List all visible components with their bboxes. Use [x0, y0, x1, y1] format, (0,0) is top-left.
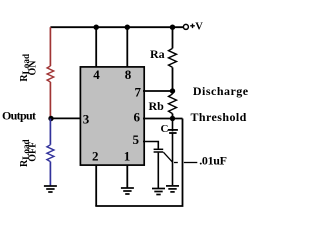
svg-text:.01uF: .01uF [199, 154, 227, 168]
svg-text:OFF: OFF [28, 142, 39, 162]
svg-text:1: 1 [124, 148, 131, 163]
svg-text:C: C [161, 123, 169, 135]
svg-text:5: 5 [133, 132, 140, 147]
svg-text:4: 4 [93, 67, 100, 82]
svg-text:3: 3 [83, 112, 90, 127]
svg-text:Ra: Ra [150, 47, 165, 61]
svg-text:Threshold: Threshold [191, 110, 247, 124]
svg-text:Rb: Rb [149, 99, 165, 113]
svg-text:8: 8 [125, 67, 132, 82]
svg-text:Discharge: Discharge [193, 84, 249, 98]
svg-text:7: 7 [135, 84, 142, 99]
svg-text:ON: ON [28, 60, 39, 76]
svg-text:2: 2 [92, 148, 99, 163]
svg-text:Output: Output [2, 109, 36, 123]
svg-text:6: 6 [134, 109, 141, 124]
svg-text:V: V [195, 22, 203, 33]
